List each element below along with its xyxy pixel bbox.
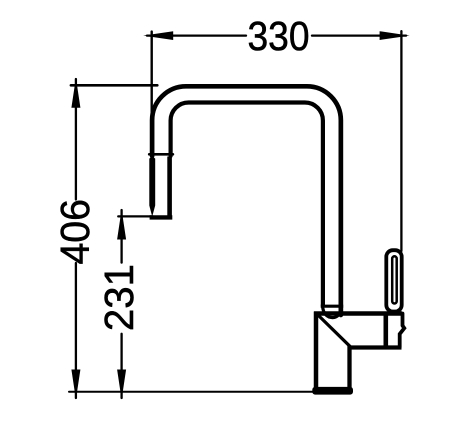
spray head bottom edge bbox=[150, 215, 173, 219]
spray head right edge bbox=[167, 157, 172, 217]
extension line 406 top bbox=[71, 84, 157, 87]
svg-text:330: 330 bbox=[248, 13, 310, 59]
arrowhead 231 bottom bbox=[117, 370, 126, 400]
body top line bbox=[314, 311, 402, 315]
body right edge with chamfer bbox=[400, 314, 405, 348]
dimension line 406 upper segment bbox=[75, 79, 77, 200]
arrowhead 330 left bbox=[143, 31, 173, 40]
swivel collar arc bbox=[323, 306, 342, 318]
dimension line 231 lower segment bbox=[120, 334, 122, 398]
svg-text:231: 231 bbox=[96, 264, 142, 331]
handle inner slot bbox=[392, 256, 397, 303]
dimension line 330 left segment bbox=[147, 34, 246, 36]
dimension line 330 right segment bbox=[312, 34, 406, 36]
arrowhead 406 top bbox=[71, 78, 80, 108]
swivel collar line bbox=[321, 305, 344, 308]
handle outer outline bbox=[386, 250, 401, 311]
arrowhead 406 bottom bbox=[71, 370, 80, 400]
spray head joint line bbox=[149, 153, 173, 156]
spout outer contour bbox=[152, 86, 341, 315]
body left edge bbox=[314, 312, 319, 389]
spray head left thick edge bbox=[149, 156, 155, 217]
base plate bbox=[312, 387, 353, 395]
body miter seam diagonal bbox=[320, 317, 350, 347]
spout inner contour bbox=[171, 103, 323, 306]
body bar bottom edge bbox=[349, 345, 402, 349]
arrowhead 231 top bbox=[117, 210, 126, 240]
dimension line 406 lower segment bbox=[75, 263, 77, 398]
cartridge housing inner line bbox=[383, 314, 388, 348]
extension line 330 left bbox=[150, 32, 152, 157]
body column right edge bbox=[347, 346, 351, 389]
extension line bottom shared 406/231 bbox=[69, 391, 313, 393]
extension line 330 right bbox=[400, 31, 402, 251]
svg-text:406: 406 bbox=[52, 199, 98, 264]
dimension line 231 upper segment bbox=[120, 210, 122, 263]
arrowhead 330 right bbox=[380, 31, 410, 40]
extension line 231 bbox=[118, 215, 153, 217]
